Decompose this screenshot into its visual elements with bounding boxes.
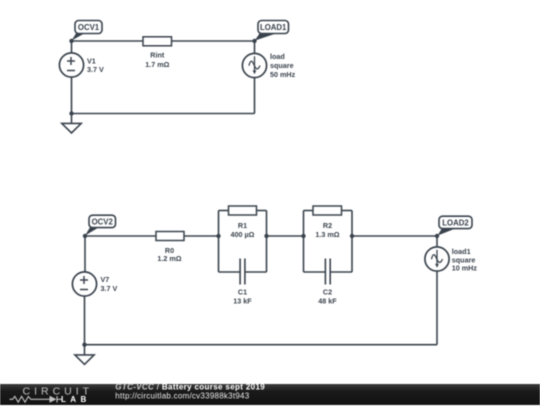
svg-text:1.2 mΩ: 1.2 mΩ bbox=[157, 254, 181, 263]
svg-text:R1: R1 bbox=[238, 221, 247, 230]
svg-text:50 mHz: 50 mHz bbox=[270, 70, 296, 79]
svg-text:LOAD2: LOAD2 bbox=[442, 218, 469, 227]
svg-text:Rint: Rint bbox=[150, 51, 165, 60]
svg-text:1.7 mΩ: 1.7 mΩ bbox=[145, 60, 169, 69]
svg-text:OCV2: OCV2 bbox=[92, 217, 114, 226]
svg-text:load: load bbox=[270, 52, 285, 61]
svg-text:LOAD1: LOAD1 bbox=[260, 23, 287, 32]
svg-text:GTC-VCC / Battery course sept: GTC-VCC / Battery course sept 2019 bbox=[115, 383, 265, 392]
svg-text:3.7 V: 3.7 V bbox=[101, 284, 118, 293]
svg-text:V7: V7 bbox=[101, 275, 110, 284]
svg-text:400 µΩ: 400 µΩ bbox=[231, 230, 255, 239]
svg-text:OCV1: OCV1 bbox=[78, 23, 100, 32]
svg-text:48 kF: 48 kF bbox=[318, 297, 337, 306]
svg-text:10 mHz: 10 mHz bbox=[452, 264, 478, 273]
svg-text:LAB: LAB bbox=[61, 395, 91, 404]
svg-text:13 kF: 13 kF bbox=[233, 297, 252, 306]
svg-text:http://circuitlab.com/cv33988k: http://circuitlab.com/cv33988k3t943 bbox=[115, 392, 249, 401]
svg-text:square: square bbox=[270, 61, 294, 70]
svg-text:C2: C2 bbox=[323, 288, 332, 297]
svg-text:3.7 V: 3.7 V bbox=[87, 65, 104, 74]
svg-text:1.3 mΩ: 1.3 mΩ bbox=[315, 230, 339, 239]
svg-text:R2: R2 bbox=[323, 221, 332, 230]
svg-text:C1: C1 bbox=[238, 288, 247, 297]
